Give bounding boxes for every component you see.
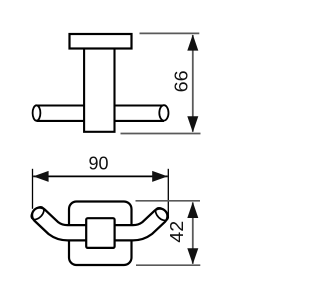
dimension 42: dimension line [192, 202, 194, 263]
dimension 42: bottom arrowhead [187, 248, 198, 264]
dimension 42: top extension line [136, 200, 201, 202]
svg-text:90: 90 [89, 154, 109, 174]
dimension 66: bottom arrowhead [187, 116, 198, 132]
svg-text:66: 66 [172, 70, 192, 92]
dimension 90: right extension line [167, 169, 169, 217]
dimension 90: right arrowhead [152, 171, 167, 182]
wall plate (top rectangle, side view) [70, 34, 132, 49]
dimension 66: bottom extension line [121, 133, 201, 135]
hook rod (bent bar through plate, plan view) silhouette [40, 215, 160, 233]
right hook tip face [153, 205, 170, 222]
post (vertical pillar, side view) [84, 48, 114, 132]
dimension 66: dimension line [192, 35, 194, 132]
left hook tip face [29, 205, 46, 222]
dimension 66: top arrowhead [187, 35, 198, 51]
rod right end cap [159, 105, 168, 120]
dimension 42: top arrowhead [187, 202, 198, 218]
dimension 90: dimension line [33, 175, 167, 177]
base plate (rounded square, plan view) [69, 202, 132, 266]
svg-text:42: 42 [167, 221, 187, 243]
rod (horizontal cylinder, side view) [37, 106, 165, 121]
dimension 90: left arrowhead [33, 171, 48, 182]
rod left end cap [33, 105, 41, 120]
dimension 90: left extension line [32, 169, 34, 209]
dimension 42: bottom extension line [136, 264, 200, 266]
centre boss (square, plan view) [86, 218, 114, 248]
hook rod interior (white) [40, 215, 160, 233]
dimension 66: top extension line [140, 32, 200, 34]
